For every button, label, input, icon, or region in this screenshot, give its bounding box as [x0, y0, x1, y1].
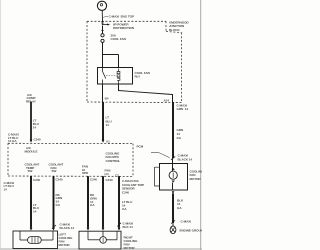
wire A/C request down to connector box [30, 102, 32, 141]
arrow into left fan [52, 228, 55, 231]
svg-text:BLACK 14: BLACK 14 [178, 157, 193, 161]
wire stud to fuse [102, 26, 104, 34]
svg-text:C-MAXI: C-MAXI [181, 219, 192, 223]
svg-text:14: 14 [33, 125, 37, 129]
svg-text:ENGINE GROUND: ENGINE GROUND [180, 229, 203, 233]
svg-text:A1: A1 [106, 140, 110, 144]
svg-text:BLOCK: BLOCK [169, 28, 180, 32]
svg-text:GRN 14: GRN 14 [177, 107, 189, 111]
svg-text:C240: C240 [34, 138, 41, 142]
svg-text:B4: B4 [105, 97, 109, 101]
wire out of motor box [172, 183, 174, 191]
svg-text:C240: C240 [90, 178, 97, 182]
arrow into lower box [30, 140, 33, 143]
svg-text:PCM: PCM [137, 144, 144, 148]
arrow into right fan [102, 228, 105, 231]
svg-text:SW: SW [28, 169, 33, 173]
fuse 30A COOL FAN [101, 34, 104, 43]
svg-text:C240: C240 [106, 178, 113, 182]
leader to wire label [103, 16, 108, 17]
wire relay left pin down through block bottom [102, 84, 104, 102]
left cooling fan box [13, 231, 58, 249]
in-line connector symbol [151, 152, 170, 157]
svg-text:C2: C2 [115, 174, 119, 178]
right fan motor symbol [100, 237, 107, 244]
wire into motor [172, 158, 174, 171]
svg-text:14: 14 [33, 210, 37, 214]
wire 1 to left fan [30, 176, 32, 228]
svg-text:C-MAXI ENG TOP: C-MAXI ENG TOP [109, 15, 134, 19]
right fan internal wiring [88, 231, 117, 240]
left fan internal wiring [20, 231, 53, 240]
svg-text:BLK 14: BLK 14 [123, 225, 134, 229]
svg-text:14 GA: 14 GA [8, 139, 17, 143]
relay coil (right) [117, 69, 120, 85]
motor symbol [169, 168, 177, 183]
svg-text:DISTRIBUTION: DISTRIBUTION [113, 26, 135, 30]
junction dot / entry arrow at box edge [101, 21, 103, 23]
engine ground symbol [170, 223, 176, 234]
svg-text:14: 14 [4, 188, 8, 192]
wire from stud to junction block [101, 10, 103, 21]
connector tick [117, 223, 121, 227]
arrow into right fan [118, 228, 121, 231]
svg-text:C240: C240 [122, 190, 129, 194]
heavy wire to lower connector box [102, 102, 104, 141]
svg-text:MOTOR: MOTOR [124, 246, 136, 250]
relay contact (left) [103, 68, 106, 85]
relay internal dashed link [106, 75, 116, 77]
heavy wire down to fan motor [172, 102, 174, 158]
wire fuse to relay branch [102, 43, 104, 56]
connector tick [171, 220, 175, 223]
left fan motor symbol [28, 237, 42, 244]
svg-text:CONTROL: CONTROL [106, 159, 121, 163]
cool fan relay box [98, 68, 133, 85]
svg-text:C240: C240 [33, 178, 40, 182]
wire 5 to right fan [118, 176, 120, 227]
wire 2 to left fan [53, 176, 55, 228]
right cooling fan box [79, 231, 121, 249]
wire 4 to right fan [102, 176, 104, 227]
lower connector dashed box [8, 143, 133, 176]
svg-text:SPD: SPD [82, 171, 89, 175]
arrow into left fan [30, 228, 33, 231]
cooling fan motor box [160, 164, 188, 191]
svg-text:C240: C240 [56, 178, 63, 182]
svg-text:SW: SW [52, 169, 57, 173]
svg-text:BLACK 14: BLACK 14 [60, 226, 75, 230]
connector tick [52, 225, 56, 229]
wire relay right pin to right feed [118, 84, 120, 91]
svg-text:LO: LO [105, 172, 110, 176]
heavy ground wire [172, 194, 174, 224]
svg-text:A14: A14 [164, 98, 170, 102]
branch arrow to I/P power distribution [103, 24, 108, 26]
arrow into right fan [87, 228, 90, 231]
arrow into lower box [102, 140, 105, 143]
wire 3 to right fan [87, 176, 89, 227]
battery feed stud circle [97, 1, 106, 10]
underhood junction block dashed box [87, 21, 182, 102]
svg-text:MOTOR: MOTOR [190, 177, 202, 181]
svg-text:MODULE: MODULE [25, 149, 38, 153]
svg-text:14: 14 [106, 123, 110, 127]
branch to relay coil [102, 54, 119, 56]
svg-text:COOL FAN: COOL FAN [111, 37, 127, 41]
svg-text:MOTOR: MOTOR [59, 243, 71, 247]
bracket left of motor box [155, 167, 160, 186]
